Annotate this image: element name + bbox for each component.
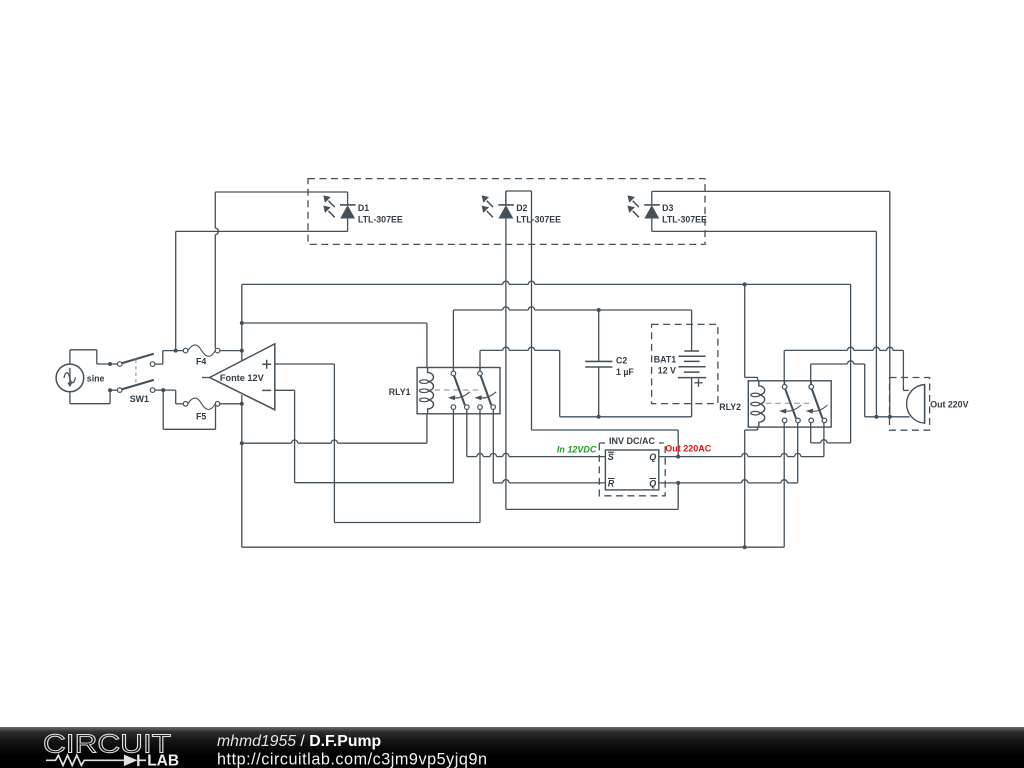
wire SW1 pole2 branch: [155, 388, 183, 404]
switch SW1 link dashed: [135, 360, 137, 386]
wire speaker top: [903, 389, 908, 391]
wire RLY1 coil bottom: [242, 414, 427, 443]
battery BAT1: [654, 310, 706, 417]
svg-text:RLY2: RLY2: [719, 402, 741, 412]
svg-text:http://circuitlab.com/c3jm9vp5: http://circuitlab.com/c3jm9vp5yjq9n: [217, 751, 487, 768]
fuse F5: [183, 398, 220, 421]
relay RLY2: [719, 381, 831, 427]
svg-text:R: R: [608, 479, 615, 489]
wire D3 bottom: [652, 231, 877, 416]
svg-text:SW1: SW1: [130, 394, 149, 404]
wire speaker bottom: [865, 415, 910, 419]
wire sine top loop: [70, 350, 97, 364]
svg-text:Out 220V: Out 220V: [930, 400, 968, 410]
logo resistor-diode symbol: [46, 755, 124, 765]
svg-text:Q: Q: [649, 479, 656, 489]
wire RLY2 p2bl: [811, 423, 851, 443]
wire rail x850: [850, 284, 852, 443]
svg-text:S: S: [608, 452, 614, 462]
wire RLY2 p1bl down: [783, 423, 785, 548]
wire F4 to node: [220, 349, 244, 353]
svg-text:INV DC/AC: INV DC/AC: [609, 436, 656, 446]
wire RLY1 pole2 top: [480, 347, 560, 417]
wire rail y417: [560, 415, 692, 419]
LED D1: [323, 192, 403, 231]
svg-text:LAB: LAB: [147, 753, 179, 768]
wire SW1 pole1 to F4: [155, 349, 183, 365]
dashed box BAT1: [652, 324, 718, 403]
wire D1 anode riser: [175, 231, 177, 350]
dashed box LEDs: [308, 179, 705, 245]
svg-text:mhmd1955 / D.F.Pump: mhmd1955 / D.F.Pump: [217, 733, 381, 750]
wire Fonte minus out: [275, 390, 295, 482]
latch U1 box: [605, 450, 658, 490]
svg-text:D1: D1: [358, 203, 369, 213]
wire D2 anode down: [505, 218, 507, 509]
wire bottom rail: [242, 545, 784, 549]
voltage source V1 sine: [56, 364, 104, 392]
svg-text:In 12VDC: In 12VDC: [557, 445, 597, 455]
wire Q out: [659, 423, 824, 459]
wire RLY2 pole2 top: [811, 361, 865, 417]
svg-text:LTL-307EE: LTL-307EE: [358, 214, 403, 224]
svg-text:F5: F5: [196, 412, 206, 422]
dashed box latch: [599, 443, 665, 496]
wire D1 top: [215, 192, 347, 349]
wire Fonte plus out: [275, 364, 335, 523]
fuse F4: [183, 345, 220, 367]
svg-text:D2: D2: [516, 203, 527, 213]
svg-text:sine: sine: [87, 373, 105, 383]
label Out 220V: [930, 400, 968, 410]
wire RLY2 coil top: [745, 284, 758, 380]
relay RLY1: [389, 368, 500, 414]
label Out 220AC: [665, 443, 712, 453]
capacitor C2: [585, 310, 634, 417]
wire rail y310: [453, 307, 691, 312]
svg-text:12 V: 12 V: [658, 365, 676, 375]
svg-text:LTL-307EE: LTL-307EE: [662, 214, 707, 224]
wire RLY1 c4 to R: [493, 409, 605, 483]
wire RLY2 pole1 top: [784, 347, 903, 390]
svg-text:F4: F4: [196, 357, 206, 367]
svg-text:C2: C2: [616, 355, 627, 365]
LED D2: [482, 191, 562, 224]
label INV DC/AC: [605, 436, 659, 446]
wire to SW1 pole2: [108, 388, 117, 392]
switch SW1 pole2: [117, 380, 155, 393]
wire sine bottom loop: [70, 390, 110, 404]
wire SW1 pole2 down loop: [163, 390, 217, 429]
wire RLY1 c2 to S: [467, 409, 606, 456]
wire sine to SW1 pole1: [97, 362, 118, 366]
svg-text:Out 220AC: Out 220AC: [665, 443, 712, 453]
svg-text:1 µF: 1 µF: [616, 367, 634, 377]
svg-text:Q: Q: [649, 452, 656, 462]
wire RLY2 coil return: [745, 427, 758, 547]
wire plus to RLY1 c3: [334, 409, 480, 522]
svg-text:BAT1: BAT1: [654, 354, 676, 364]
speaker SP1 Out 220V: [907, 385, 925, 424]
footer bar: [0, 727, 1024, 768]
wire RLY1 coil top: [242, 323, 427, 368]
wire RLY1 pole1 top: [452, 310, 454, 371]
wire Qbar out: [659, 423, 798, 485]
wire D3 top: [652, 191, 890, 416]
svg-text:D3: D3: [662, 203, 673, 213]
label SW1: [130, 394, 149, 404]
wire D2 net wrap: [532, 430, 679, 457]
svg-text:Fonte 12V: Fonte 12V: [220, 373, 265, 383]
wire rail x242 upper: [240, 284, 244, 360]
wire rail y284: [242, 281, 851, 286]
op-amp U2 Fonte 12V: [202, 344, 275, 410]
wire rail x242 lower: [240, 395, 244, 547]
wire F5 to node: [220, 402, 244, 406]
svg-text:LTL-307EE: LTL-307EE: [516, 214, 561, 224]
wire D1 bottom: [176, 230, 348, 232]
wire Qbar return: [506, 483, 678, 510]
svg-text:RLY1: RLY1: [389, 387, 411, 397]
wire D2 cathode jog: [506, 191, 532, 430]
dashed box speaker: [890, 378, 930, 431]
switch SW1 pole1: [117, 354, 155, 367]
LED D3: [628, 191, 708, 231]
wire minus to RLY1 c1: [295, 409, 454, 483]
label In 12VDC: [557, 445, 597, 455]
